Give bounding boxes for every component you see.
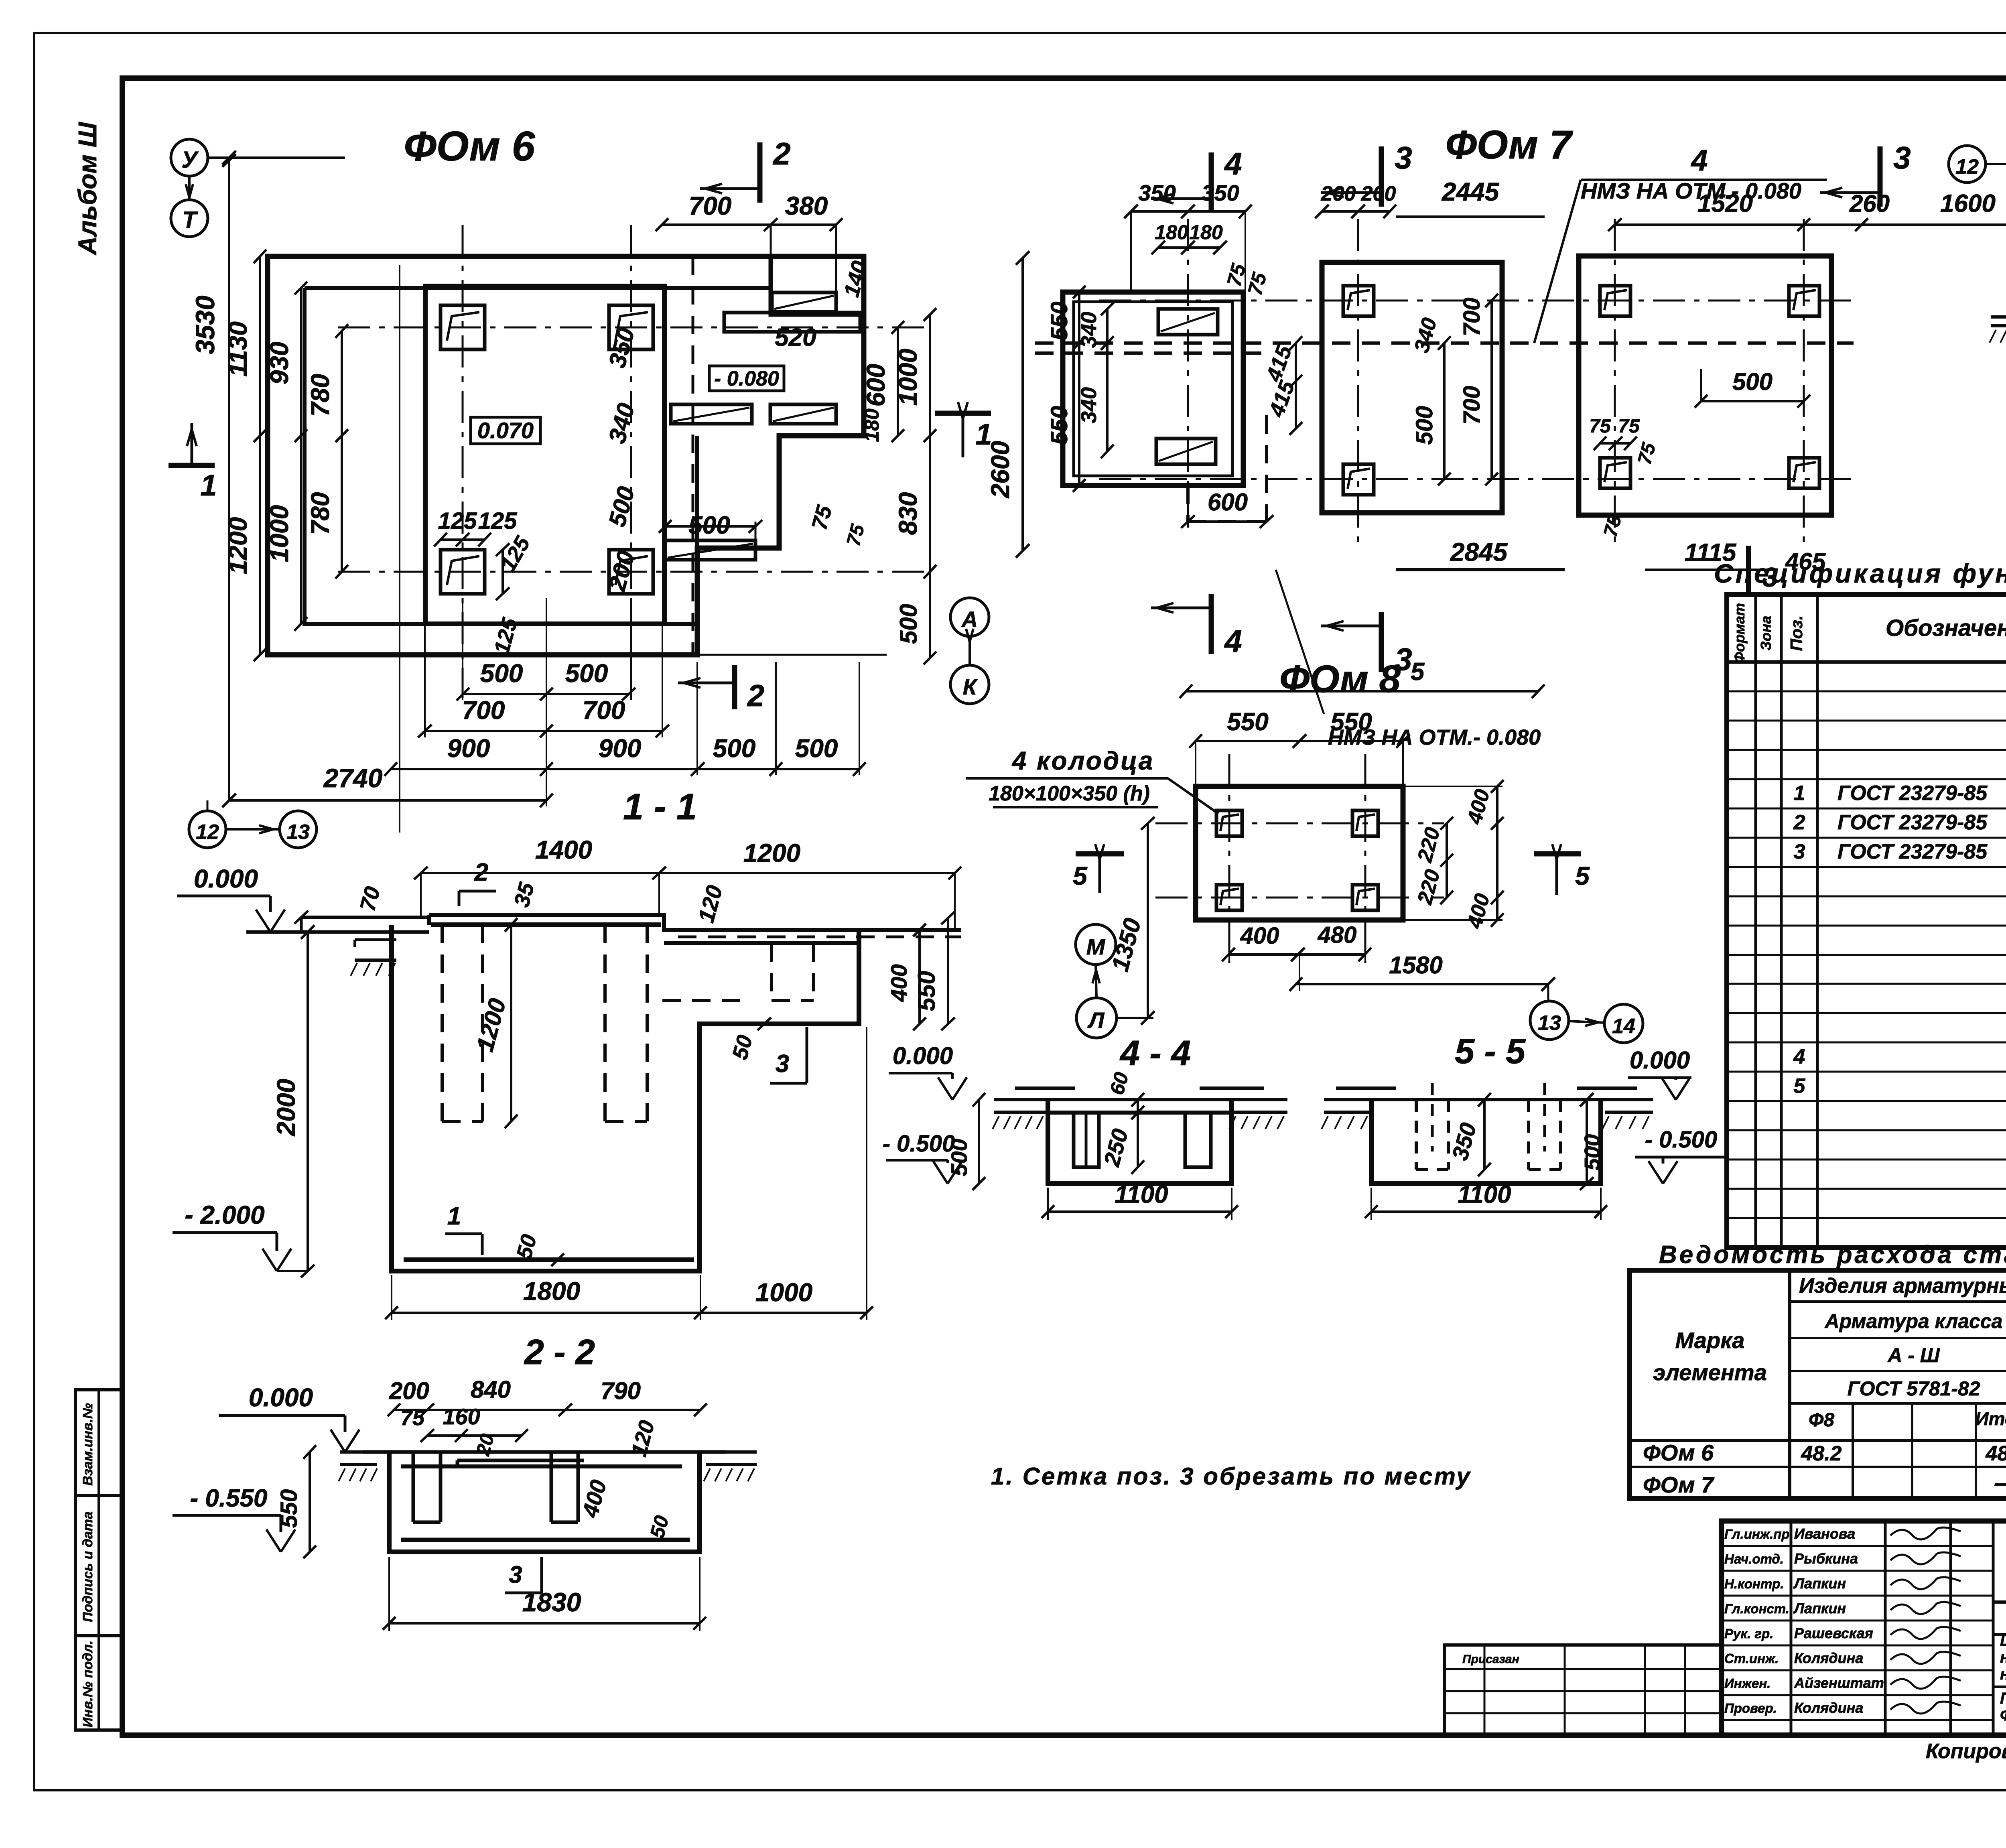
- FOm6 left dims 780/780: [341, 331, 343, 572]
- svg-text:—: —: [1994, 1470, 2006, 1495]
- FOm8 section flags 5: [1076, 851, 1124, 857]
- FOm7 left block: [1063, 292, 1243, 485]
- 4-4 slab top line: [1015, 1086, 1075, 1090]
- svg-text:Колядина: Колядина: [1794, 1650, 1863, 1666]
- 5-5 dim 1100: [1371, 1210, 1601, 1213]
- svg-text:Ведомость расхода стали на: Ведомость расхода стали на элемент , кг: [1659, 1241, 2006, 1269]
- svg-text:1. Сетка поз. 3 обрезать: 1. Сетка поз. 3 обрезать по месту: [991, 1463, 1472, 1490]
- 5-5 pit body: [1371, 1100, 1601, 1184]
- svg-text:780: 780: [306, 492, 335, 535]
- svg-text:Обозначение: Обозначение: [1886, 615, 2006, 641]
- svg-text:350: 350: [1202, 180, 1239, 205]
- 1-1 top slab left part: [429, 915, 961, 930]
- svg-text:1600: 1600: [1940, 190, 1996, 217]
- FOm7 middle plate: [1322, 262, 1502, 513]
- svg-text:Лапкин: Лапкин: [1793, 1600, 1846, 1616]
- svg-text:5 - 5: 5 - 5: [1455, 1031, 1526, 1071]
- title block right part: [1993, 1600, 2006, 1604]
- FOm8 dim 550/550: [1196, 740, 1403, 742]
- FOm7 middle plate squares: [1343, 286, 1374, 316]
- svg-text:180: 180: [861, 408, 883, 442]
- svg-text:Рук. гр.: Рук. гр.: [1724, 1626, 1773, 1641]
- svg-text:75: 75: [400, 1406, 425, 1430]
- svg-text:Цех по изготовлению строитель-: Цех по изготовлению строитель-: [2000, 1632, 2006, 1649]
- svg-text:Инв.№ подл.: Инв.№ подл.: [80, 1641, 95, 1728]
- 1-1 mesh flag 2: [459, 890, 496, 893]
- svg-text:1830: 1830: [522, 1587, 581, 1617]
- FOm6 anchor square top-left: [441, 305, 485, 349]
- 5-5 dim 500 right: [1586, 1100, 1588, 1184]
- svg-text:3: 3: [776, 1050, 789, 1078]
- svg-text:400: 400: [886, 964, 912, 1002]
- 5-5 level 0.000: [1661, 1077, 1676, 1100]
- svg-text:2: 2: [747, 679, 764, 713]
- svg-text:Гл.инж.пр: Гл.инж.пр: [1724, 1527, 1790, 1541]
- axis circle Т: [171, 200, 208, 237]
- svg-text:Альбом Ш: Альбом Ш: [73, 122, 102, 256]
- FOm6 section flag 2 bottom: [732, 665, 737, 709]
- axis circles 12/13 top: [1949, 146, 1986, 183]
- svg-text:75: 75: [1618, 416, 1640, 437]
- signature table: [1790, 1521, 1793, 1735]
- svg-text:Лапкин: Лапкин: [1793, 1575, 1846, 1592]
- svg-text:550: 550: [913, 971, 940, 1011]
- svg-text:1 - 1: 1 - 1: [623, 786, 697, 827]
- FOm7 dim 200/200: [1322, 210, 1390, 213]
- svg-text:500: 500: [713, 734, 756, 763]
- svg-text:Взам.инв.№: Взам.инв.№: [80, 1403, 95, 1486]
- axis circle L: [1076, 998, 1117, 1038]
- svg-text:260: 260: [1849, 190, 1890, 217]
- svg-text:Марка: Марка: [1675, 1328, 1745, 1353]
- svg-text:У: У: [181, 147, 199, 173]
- 4-4 ground right: [1228, 1098, 1287, 1101]
- svg-text:520: 520: [775, 324, 816, 351]
- svg-text:160: 160: [443, 1404, 480, 1429]
- FOm6 embedded plate 520 top: [772, 292, 836, 312]
- svg-text:2: 2: [772, 136, 790, 171]
- svg-text:Иванова: Иванова: [1794, 1525, 1855, 1542]
- svg-text:К: К: [963, 674, 978, 699]
- svg-text:Спецификация фундаментов ФОм 6: Спецификация фундаментов ФОм 6, ФОм7, ФО…: [1714, 558, 2006, 588]
- svg-text:780: 780: [306, 374, 335, 417]
- svg-text:ФОм 6: ФОм 6: [404, 123, 535, 170]
- FOm7 dim 600: [1188, 520, 1267, 523]
- svg-text:Копировал: Копировал: [1926, 1740, 2006, 1763]
- svg-text:2: 2: [1793, 811, 1805, 834]
- 2-2 top dims 200/840/790: [394, 1409, 700, 1411]
- svg-text:400: 400: [1240, 923, 1279, 949]
- 1-1 bottom dims 1800/1000: [392, 1312, 867, 1314]
- svg-text:500: 500: [795, 734, 838, 763]
- 5-5 ground left: [1324, 1098, 1376, 1101]
- svg-text:1000: 1000: [755, 1278, 812, 1307]
- svg-text:1100: 1100: [1458, 1181, 1511, 1208]
- axis circles 13/14: [1530, 1001, 1569, 1040]
- left margin stamp boxes: [75, 1390, 123, 1730]
- FOm7 dims 500/700 inside: [1443, 343, 1446, 479]
- section 1-1 cut flag left: [169, 463, 215, 468]
- 2-2 dim 550: [309, 1452, 311, 1552]
- svg-text:Нач.отд.: Нач.отд.: [1724, 1552, 1784, 1566]
- 2-2 channels: [412, 1452, 415, 1522]
- 1-1 dashed channels right part: [770, 943, 773, 1001]
- 1-1 flag 3: [770, 1082, 807, 1085]
- svg-text:550: 550: [276, 1489, 302, 1528]
- axis circles 12/13 left: [189, 811, 226, 848]
- FOm7 75 dims bottom squares: [1600, 442, 1630, 445]
- FOm7 dim 1600 to axis 12: [1862, 223, 2006, 226]
- FOm6 bottom dim 500/500: [463, 693, 629, 695]
- FOm6 embedded plates mid: [671, 404, 752, 424]
- svg-text:Формат: Формат: [1731, 603, 1748, 663]
- svg-text:Инжен.: Инжен.: [1724, 1676, 1770, 1691]
- FOm7 dim 350/350: [1131, 210, 1245, 213]
- svg-text:- 2.000: - 2.000: [185, 1200, 264, 1229]
- svg-text:1000: 1000: [265, 505, 294, 562]
- 5-5 level -0.500: [1649, 1161, 1663, 1184]
- FOm7 section flags 3: [1379, 146, 1384, 207]
- svg-text:Зона: Зона: [1758, 616, 1774, 651]
- FOm6 anchor square bottom-left: [441, 550, 485, 594]
- svg-text:500: 500: [946, 1139, 972, 1176]
- 2-2 level -0.550: [266, 1529, 281, 1552]
- svg-text:700: 700: [583, 696, 625, 725]
- svg-text:Итого: Итого: [1976, 1408, 2006, 1429]
- svg-text:550: 550: [1227, 708, 1268, 736]
- FOm6 top dims 700/380: [662, 223, 836, 226]
- link A-K: [968, 636, 971, 665]
- svg-text:Айзенштат: Айзенштат: [1794, 1675, 1884, 1691]
- svg-text:500: 500: [1411, 406, 1437, 445]
- FOm8 dims 400/480 bottom: [1228, 953, 1365, 956]
- svg-text:0.000: 0.000: [249, 1383, 313, 1412]
- svg-text:Производственный корпус: Производственный корпус: [2000, 1690, 2006, 1707]
- svg-text:1800: 1800: [523, 1277, 580, 1306]
- FOm6 anchor square bottom-right: [609, 550, 653, 594]
- svg-text:Присазан: Присазан: [1462, 1653, 1519, 1666]
- svg-text:48.2: 48.2: [1985, 1442, 2006, 1465]
- FOm8 dim 1580: [1296, 983, 1548, 985]
- svg-text:600: 600: [1208, 489, 1248, 516]
- 1-1 pit outline: [392, 925, 859, 1271]
- 2-2 ground line: [340, 1450, 391, 1454]
- svg-text:3: 3: [1794, 840, 1805, 863]
- svg-text:ГОСТ 23279-85: ГОСТ 23279-85: [1837, 840, 1988, 863]
- svg-text:0.000: 0.000: [893, 1042, 953, 1069]
- 5-5 ground right: [1601, 1098, 1653, 1101]
- axis circle M: [1076, 924, 1116, 965]
- svg-text:1130: 1130: [223, 321, 252, 377]
- FOm7 dim 5 long: [1186, 690, 1538, 692]
- FOm6 vertical centerline right: [630, 225, 632, 698]
- svg-text:5: 5: [1575, 861, 1590, 890]
- svg-text:ной оснастки и инвентаря мощ-: ной оснастки и инвентаря мощ-: [2000, 1649, 2006, 1666]
- FOm7 right plate: [1579, 256, 1831, 515]
- svg-text:ФОм 6: ФОм 6: [1643, 1440, 1714, 1465]
- 1-1 dim 2000: [307, 932, 309, 1271]
- 2-2 bottom mesh pos.3: [401, 1538, 690, 1542]
- section 1-1 cut flag right: [935, 411, 991, 416]
- svg-text:5: 5: [1794, 1074, 1806, 1098]
- FOm6 extension lines bottom: [399, 658, 400, 776]
- FOm6 nested plate outline: [305, 288, 771, 624]
- svg-text:1400: 1400: [535, 835, 592, 864]
- svg-text:Арматура класса: Арматура класса: [1824, 1310, 2003, 1332]
- 2-2 bottom dim 1830: [389, 1622, 700, 1625]
- svg-text:- 0.500: - 0.500: [1645, 1127, 1718, 1153]
- svg-text:930: 930: [265, 342, 294, 385]
- svg-text:180: 180: [1155, 221, 1188, 244]
- 1-1 level -2.000: [262, 1249, 277, 1271]
- svg-text:Ст.инж.: Ст.инж.: [1724, 1651, 1779, 1666]
- svg-text:48.2: 48.2: [1801, 1442, 1842, 1465]
- 4-4 dim 1100: [1048, 1210, 1232, 1213]
- FOm6 anchor square top-right: [609, 305, 653, 349]
- svg-text:1: 1: [200, 469, 217, 502]
- svg-text:4: 4: [1224, 623, 1242, 659]
- svg-text:ФОм 7: ФОм 7: [1643, 1472, 1715, 1497]
- svg-text:1200: 1200: [223, 517, 252, 574]
- FOm7 dim 180/180: [1158, 246, 1220, 249]
- FOm6 outer plate outline: [268, 256, 864, 655]
- svg-text:4: 4: [1690, 144, 1708, 177]
- svg-text:4 - 4: 4 - 4: [1119, 1033, 1191, 1073]
- svg-text:700: 700: [1459, 298, 1485, 337]
- svg-text:Подпись и дата: Подпись и дата: [80, 1511, 95, 1622]
- svg-text:1: 1: [447, 1202, 461, 1230]
- svg-text:2845: 2845: [1450, 538, 1508, 567]
- svg-text:2740: 2740: [323, 763, 383, 793]
- axis circle A: [950, 598, 989, 636]
- FOm7 right plate squares: [1600, 286, 1630, 316]
- svg-text:5: 5: [1411, 658, 1425, 686]
- svg-text:900: 900: [447, 734, 490, 763]
- 4-4 dim 500: [978, 1100, 980, 1184]
- FOm7 dims 550/340 upper: [1078, 292, 1080, 343]
- svg-text:М: М: [1086, 934, 1106, 959]
- svg-text:900: 900: [599, 734, 642, 763]
- FOm6 inner pedestal rect: [425, 286, 664, 624]
- 4-4 ground left: [994, 1098, 1052, 1101]
- svg-text:Провер.: Провер.: [1724, 1701, 1777, 1716]
- svg-text:550: 550: [1046, 302, 1072, 341]
- 2-2 flag 3: [505, 1592, 542, 1594]
- spec table grid: [1727, 595, 2006, 1247]
- FOm6 bottom dim 2740: [229, 799, 546, 802]
- svg-text:1100: 1100: [1115, 1181, 1168, 1208]
- 1-1 dims 400/550 right: [918, 930, 921, 1024]
- svg-text:600: 600: [861, 364, 890, 407]
- 4-4 wells: [1074, 1113, 1099, 1167]
- FOm6 level box -0.080: [709, 366, 784, 391]
- FOm6 embedded plate wide: [724, 313, 860, 332]
- svg-text:12: 12: [1955, 155, 1979, 179]
- svg-text:3: 3: [1395, 140, 1412, 175]
- svg-text:Поз.: Поз.: [1787, 615, 1806, 651]
- svg-text:550: 550: [1330, 708, 1372, 736]
- svg-text:4 колодца: 4 колодца: [1011, 746, 1155, 775]
- FOm7 left block plates: [1158, 309, 1218, 335]
- FOm6 vertical centerline left: [462, 225, 464, 698]
- 3-3 ground left: [1991, 315, 2006, 319]
- 4-4 dim 250: [1137, 1113, 1139, 1167]
- svg-text:550: 550: [1046, 406, 1072, 445]
- FOm8 centerlines: [1155, 822, 1444, 824]
- svg-text:75: 75: [1589, 416, 1611, 437]
- svg-text:200: 200: [389, 1377, 429, 1404]
- svg-text:ФОм 8: ФОм 8: [1279, 658, 1401, 701]
- svg-text:5: 5: [1073, 861, 1088, 890]
- leader from У to dim: [208, 156, 345, 159]
- svg-text:ФОм 7: ФОм 7: [1446, 122, 1574, 167]
- 5-5 dim 350: [1483, 1100, 1486, 1170]
- svg-text:380: 380: [785, 191, 828, 220]
- FOm7 centerline horizontal bottom: [1099, 478, 1854, 480]
- svg-text:ГОСТ 23279-85: ГОСТ 23279-85: [1837, 811, 1988, 834]
- svg-text:Н.контр.: Н.контр.: [1724, 1576, 1784, 1591]
- FOm7 middle vertical centerline: [1357, 219, 1359, 550]
- svg-text:Т: Т: [182, 207, 198, 233]
- svg-text:1200: 1200: [743, 839, 800, 867]
- svg-text:Рыбкина: Рыбкина: [1794, 1550, 1858, 1567]
- svg-text:700: 700: [1459, 386, 1485, 425]
- svg-text:А: А: [961, 607, 978, 632]
- FOm6 embedded plate 500 lower: [665, 540, 755, 560]
- FOm6 left dims 930/1000: [300, 288, 302, 624]
- FOm6 section flag 2 top: [757, 142, 763, 203]
- svg-text:Л: Л: [1087, 1007, 1105, 1033]
- svg-text:13: 13: [286, 820, 310, 844]
- svg-text:13: 13: [1538, 1011, 1561, 1035]
- FOm7 centerline horizontal top: [1099, 300, 1854, 302]
- FOm6 left dims 1130/1200: [259, 256, 261, 655]
- svg-text:500: 500: [480, 659, 523, 688]
- FOm8 dims 220/400 right: [1446, 823, 1448, 898]
- svg-text:180: 180: [1189, 221, 1223, 244]
- 1-1 level 0.000: [256, 910, 270, 932]
- svg-text:125: 125: [438, 508, 477, 534]
- svg-text:НМЗ НА ОТМ.- 0.080: НМЗ НА ОТМ.- 0.080: [1581, 178, 1801, 203]
- FOm6 vertical dashed axis: [692, 256, 694, 655]
- 1-1 dashed channel wells: [441, 925, 444, 1121]
- svg-text:790: 790: [601, 1377, 641, 1404]
- FOm7 dashed hook below left block: [1186, 485, 1190, 522]
- FOm7 dims 550/340 lower: [1078, 343, 1080, 485]
- svg-text:1580: 1580: [1389, 952, 1442, 979]
- title block outline: [1722, 1521, 2006, 1735]
- svg-text:0.000: 0.000: [194, 864, 258, 893]
- svg-text:1: 1: [1794, 782, 1805, 805]
- 5-5 dashed wells: [1415, 1100, 1418, 1170]
- FOm6 upper-right extension: [771, 256, 864, 315]
- svg-text:- 0.080: - 0.080: [714, 367, 779, 390]
- svg-text:3: 3: [1893, 140, 1911, 175]
- FOm8 squares: [1216, 810, 1242, 836]
- svg-text:А - Ш: А - Ш: [1887, 1344, 1940, 1367]
- svg-text:700: 700: [689, 191, 732, 220]
- FOm6 bottom dim 700/700: [425, 730, 662, 732]
- 1-1 top dims 1400/1200: [421, 872, 955, 874]
- 2-2 slab step: [457, 1459, 584, 1462]
- FOm6 bottom dim 900/900/500/500: [391, 768, 859, 770]
- FOm7 dashed axis horizontal: [1035, 341, 1854, 345]
- svg-text:Ф8: Ф8: [1809, 1409, 1834, 1431]
- small approvals grid bottom-left of title block: [1444, 1645, 1721, 1735]
- svg-text:340: 340: [1077, 387, 1101, 423]
- 1-1 mesh flag 1: [445, 1233, 482, 1235]
- svg-text:- 0.550: - 0.550: [190, 1484, 267, 1512]
- svg-text:500: 500: [1732, 368, 1773, 395]
- svg-text:0.000: 0.000: [1630, 1047, 1690, 1074]
- axis circle У: [171, 139, 208, 176]
- FOm8 dim 1350: [1147, 823, 1149, 1018]
- 2-2 body outline: [389, 1452, 700, 1552]
- svg-text:840: 840: [471, 1376, 511, 1403]
- svg-text:2445: 2445: [1442, 177, 1500, 206]
- svg-text:830: 830: [893, 492, 922, 535]
- link line У-Т: [188, 176, 191, 200]
- svg-text:ГОСТ 23279-85: ГОСТ 23279-85: [1837, 782, 1988, 805]
- FOm7 right plate centerlines: [1614, 219, 1616, 550]
- svg-text:3: 3: [509, 1561, 522, 1588]
- svg-text:4: 4: [1224, 146, 1242, 181]
- svg-text:4: 4: [1793, 1045, 1805, 1068]
- svg-text:Фундаменты под оборудование: Фундаменты под оборудование: [2000, 1706, 2006, 1724]
- 1-1 dim 1200 channel depth: [510, 925, 512, 1121]
- 4-4 level -0.500: [933, 1161, 948, 1184]
- 1-1 ground line left: [301, 916, 429, 919]
- svg-text:700: 700: [462, 696, 505, 725]
- svg-text:Гл.конст.: Гл.конст.: [1724, 1601, 1789, 1616]
- svg-text:Рашевская: Рашевская: [1794, 1625, 1873, 1641]
- FOm6 level box 0.070: [471, 417, 540, 444]
- svg-text:Изделия арматурные: Изделия арматурные: [1799, 1274, 2006, 1298]
- svg-text:- 0.500: - 0.500: [883, 1131, 955, 1157]
- FOm6 extension line x996: [399, 265, 400, 833]
- FOm7 section flags 4: [1209, 152, 1214, 213]
- 2-2 level 0.000: [331, 1430, 345, 1452]
- svg-text:Колядина: Колядина: [1794, 1700, 1863, 1716]
- svg-text:180×100×350 (h): 180×100×350 (h): [989, 782, 1150, 805]
- svg-text:элемента: элемента: [1653, 1360, 1766, 1385]
- svg-text:1000: 1000: [893, 349, 922, 406]
- svg-text:125: 125: [478, 508, 518, 534]
- FOm7 dim 1520/260: [1615, 223, 1862, 226]
- svg-text:500: 500: [895, 604, 922, 644]
- svg-text:1: 1: [975, 418, 992, 451]
- svg-text:500: 500: [565, 659, 608, 688]
- FOm8 plate: [1196, 786, 1403, 920]
- svg-text:14: 14: [1612, 1015, 1635, 1038]
- svg-text:500: 500: [1580, 1134, 1604, 1170]
- svg-text:12: 12: [196, 820, 219, 844]
- 4-4 pit body: [1048, 1100, 1232, 1184]
- svg-text:3530: 3530: [190, 295, 220, 354]
- FOm6 horizontal centerline upper: [338, 327, 930, 329]
- axis circle K: [950, 665, 989, 704]
- 4-4 level 0.000: [938, 1077, 952, 1100]
- FOm7 vertical centerline left block: [1187, 219, 1189, 534]
- 2-2 rebar mid line: [401, 1464, 682, 1468]
- FOm7 dim 500: [1701, 400, 1804, 402]
- FOm6 step lines lower right: [695, 436, 699, 548]
- svg-text:2000: 2000: [272, 1079, 300, 1136]
- svg-text:480: 480: [1318, 922, 1357, 948]
- svg-text:2 - 2: 2 - 2: [524, 1332, 595, 1372]
- svg-text:ностью 6.0тыс.тонн изделий вго: ностью 6.0тыс.тонн изделий вгод: [2000, 1665, 2006, 1683]
- 1-1 bottom mesh pos.1: [404, 1257, 694, 1262]
